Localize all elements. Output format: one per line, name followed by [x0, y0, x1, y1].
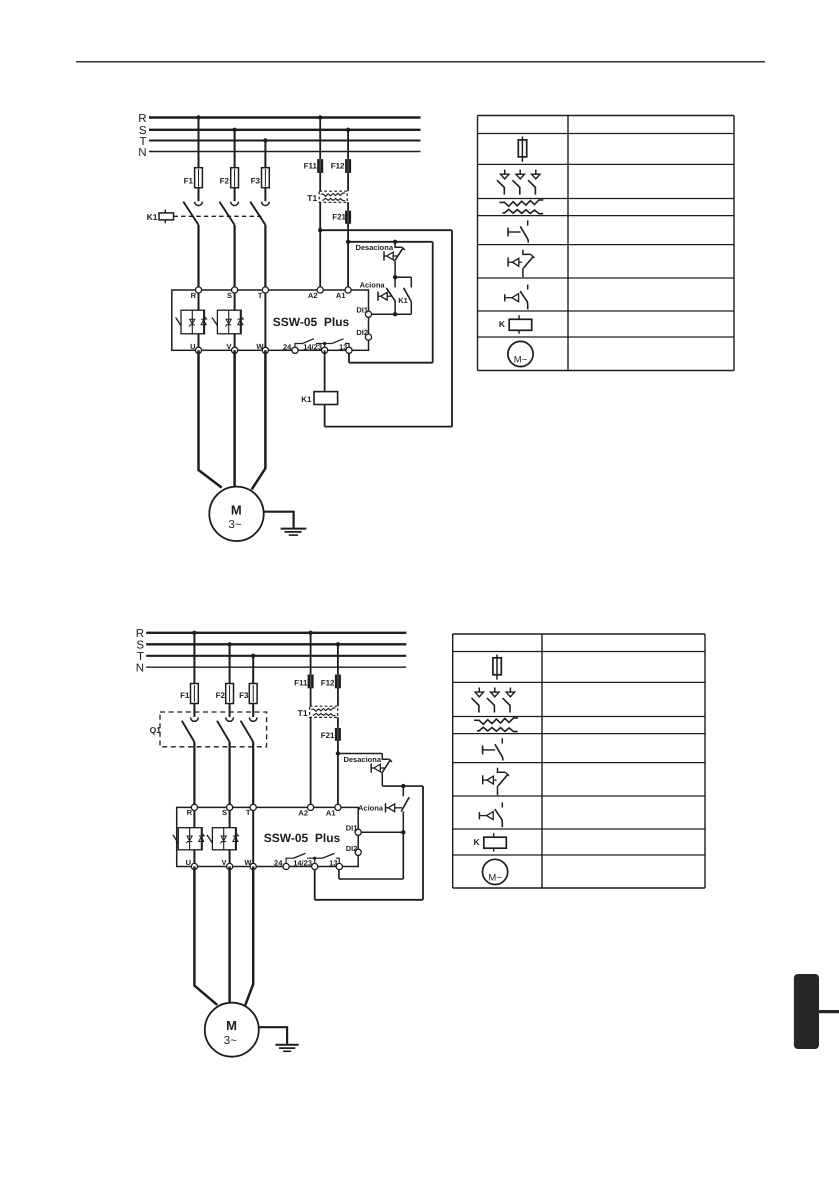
wire S bus to fuse F2 [234, 130, 236, 168]
wire DI1 node to 13 loop (d2) [402, 832, 404, 879]
mechanical link K1 (dashed) [174, 215, 262, 217]
wire fuse F1 to Q1 (d2) [193, 704, 195, 717]
contactor K1 drive symbol [147, 210, 174, 224]
node R (diagram 1 phase bus R) [138, 113, 420, 125]
svg-text:3~: 3~ [228, 519, 241, 531]
node N (diagram 2 neutral bus N) [136, 663, 407, 675]
svg-text:A2: A2 [308, 291, 318, 300]
wire U to motor [199, 350, 222, 487]
svg-text:F2: F2 [220, 177, 230, 186]
soft-starter label (d2) [264, 831, 341, 845]
wire T1 to terminal A2 [319, 202, 321, 290]
junction on bus T at F3 (d2) [251, 654, 255, 658]
svg-text:V: V [226, 342, 231, 351]
wire outer loop bottom [325, 426, 452, 428]
wire T1 to fuse F21 [347, 202, 349, 211]
terminal 14/23 (d2) [293, 859, 318, 870]
terminal A1 [336, 287, 351, 300]
svg-text:M: M [226, 1018, 237, 1033]
svg-text:K1: K1 [147, 212, 158, 222]
junction DI1 node [393, 312, 397, 316]
svg-text:F12: F12 [331, 161, 345, 170]
wire inner loop to terminal 13 [348, 350, 350, 362]
svg-text:Aciona: Aciona [358, 804, 384, 813]
wire fuse F21 to terminal A1 (d2) [337, 740, 339, 807]
svg-text:13: 13 [329, 859, 337, 868]
terminal V (d2) [221, 858, 232, 869]
fuse F21 (d2) [321, 728, 341, 742]
breaker Q1 pole 1 fixed [191, 717, 199, 721]
svg-text:R: R [136, 628, 144, 640]
push-button Desaciona contact [394, 242, 404, 277]
legend symbol: fuse (diagram 1) [518, 137, 526, 162]
terminal DI2 (d2) [346, 844, 362, 856]
svg-text:M~: M~ [514, 355, 528, 366]
contactor K1 contact pole 1 blade [183, 202, 198, 225]
fuse F12 (d2) [321, 674, 341, 689]
svg-text:K: K [499, 319, 506, 329]
svg-text:14/23: 14/23 [303, 342, 322, 351]
wire fuse F3 to contact [264, 188, 266, 202]
relay contact 24-14/23 internal [295, 339, 325, 351]
motor M1 (3-phase) [209, 487, 263, 541]
svg-text:T: T [246, 808, 251, 817]
svg-text:M~: M~ [488, 873, 502, 884]
push-button Desaciona actuator [384, 251, 397, 260]
breaker Q1 pole 3 fixed [249, 717, 257, 721]
fuse F1 [184, 168, 203, 188]
wire T bus to fuse F3 [264, 141, 266, 168]
fuse F12 [331, 159, 351, 174]
svg-text:T: T [137, 651, 144, 663]
terminal R [191, 287, 202, 300]
legend table (diagram 2) [453, 634, 705, 888]
junction Aciona tap (d2) [401, 784, 405, 788]
fuse F2 [220, 168, 239, 188]
svg-text:F2: F2 [216, 691, 226, 700]
wire DI1 node to terminal DI1 (d2) [361, 831, 403, 833]
wire terminal 14/23 to coil K1 [324, 350, 326, 391]
wire motor to ground (d2) [259, 1027, 287, 1044]
wire U to motor (d2) [194, 867, 217, 1005]
terminal W (d2) [244, 858, 256, 869]
legend symbol: NO push-button (diagram 1) [505, 285, 528, 310]
relay contact 14/23-13 internal (d2) [315, 853, 340, 866]
node S (diagram 1 phase bus S) [139, 125, 421, 137]
svg-text:N: N [138, 147, 146, 159]
junction on bus R at F11 (d2) [308, 631, 312, 635]
wire 13 loop bottom (d2) [339, 878, 403, 880]
wire motor to ground [264, 512, 294, 528]
ground (d2) [275, 1045, 298, 1052]
wire R terminal into block (d2) [193, 807, 195, 866]
wire S terminal into block (d2) [229, 807, 231, 866]
wire fuse F12 to T1 (d2) [337, 688, 339, 707]
page header rule [76, 61, 765, 63]
wire A1 node to control [348, 241, 433, 243]
junction node A1 branch (d2) [336, 751, 340, 755]
junction Desaciona output node [393, 275, 397, 279]
push-button Aciona label [360, 280, 386, 289]
fuse F1 (d2) [180, 684, 198, 704]
push-button Aciona actuator [378, 292, 391, 301]
terminal A2 [308, 287, 323, 300]
junction on bus R at F11 [318, 115, 322, 119]
svg-text:3~: 3~ [224, 1035, 237, 1047]
legend symbol: contactor coil K (diagram 1) [499, 315, 532, 334]
junction DI1 node (d2) [401, 830, 405, 834]
op-amp U1 soft-starter SSW-05 Plus outline [172, 290, 369, 350]
wire 13 loop to terminal 13 (d2) [338, 867, 340, 880]
node S (diagram 2 phase bus S) [136, 640, 406, 652]
page edge marker tab [794, 974, 839, 1049]
legend symbol: NC push-button (diagram 2) [483, 768, 509, 795]
junction on bus R at F1 (d2) [192, 631, 196, 635]
breaker Q1 dashed outline [150, 712, 267, 747]
svg-text:S: S [222, 808, 227, 817]
push-button Aciona contact [386, 277, 395, 314]
svg-text:T: T [258, 291, 263, 300]
terminal 13 [339, 342, 352, 353]
push-button Desaciona contact (d2) [382, 754, 392, 787]
wire fuse F12 to T1 [347, 172, 349, 191]
wire K1 pole 1 to terminal R [197, 225, 199, 290]
breaker Q1 pole 3 blade [241, 721, 254, 742]
contact K1 auxiliary [398, 277, 411, 314]
legend symbol: NO contact (diagram 1) [508, 220, 528, 242]
legend symbol: 3-pole contactor (diagram 1) [497, 170, 540, 195]
wire fuse F21 to terminal A1 [347, 223, 349, 290]
fuse F3 [251, 168, 270, 188]
svg-text:W: W [244, 858, 252, 867]
legend symbol: motor (diagram 1) [508, 341, 533, 366]
terminal R (d2) [187, 804, 198, 817]
svg-text:Q1: Q1 [150, 725, 162, 735]
terminal DI2 [356, 328, 371, 340]
svg-text:Desaciona: Desaciona [343, 755, 381, 764]
transformer T1 (d2) [298, 706, 338, 718]
svg-text:K: K [473, 837, 480, 847]
svg-text:F11: F11 [304, 161, 318, 170]
terminal DI1 [356, 306, 371, 318]
svg-text:N: N [136, 663, 144, 675]
push-button Aciona contact (d2) [401, 786, 409, 832]
transformer T1 [307, 191, 347, 203]
node R (diagram 2 phase bus R) [136, 628, 407, 640]
wire A2 node to outer loop [320, 229, 452, 231]
svg-text:F1: F1 [180, 691, 190, 700]
svg-text:U: U [186, 858, 191, 867]
svg-text:K1: K1 [301, 395, 312, 404]
wire to K1 aux branch [395, 276, 411, 278]
svg-text:DI2: DI2 [356, 328, 368, 337]
wire Q1 pole 3 to terminal T (d2) [252, 742, 254, 808]
svg-text:U: U [190, 342, 195, 351]
junction node A1 branch [346, 240, 350, 244]
svg-text:24: 24 [283, 342, 292, 351]
svg-text:DI2: DI2 [346, 844, 358, 853]
wire inner loop right side [432, 242, 434, 363]
wire right loop bottom (d2) [315, 899, 423, 901]
svg-text:F21: F21 [321, 731, 335, 740]
terminal 24 (d2) [274, 859, 289, 870]
wire fuse F3 to Q1 (d2) [252, 704, 254, 717]
wire right loop to terminal 14/23 (d2) [314, 867, 316, 900]
svg-text:SSW-05 Plus: SSW-05 Plus [273, 315, 350, 329]
svg-text:K1: K1 [398, 296, 408, 305]
wire Desaciona output (d2) [382, 785, 423, 787]
push-button Aciona actuator (d2) [386, 803, 403, 812]
svg-text:F3: F3 [251, 177, 261, 186]
wire outer loop right side [451, 230, 453, 426]
wire Q1 pole 2 to terminal S (d2) [229, 742, 231, 808]
svg-text:Aciona: Aciona [360, 280, 386, 289]
svg-text:A1: A1 [336, 291, 346, 300]
push-button Aciona label (d2) [358, 804, 384, 813]
breaker Q1 pole 1 blade [182, 721, 195, 742]
svg-text:R: R [187, 808, 193, 817]
wire inner loop bottom [349, 362, 433, 364]
legend symbol: transformer (diagram 1) [500, 200, 544, 214]
svg-text:F11: F11 [294, 678, 308, 687]
legend symbol: 3-pole contactor (diagram 2) [472, 688, 515, 713]
fuse F11 [304, 159, 323, 174]
coil K1 [301, 392, 337, 405]
push-button Desaciona label (d2) [343, 755, 381, 764]
junction on bus T at F3 [263, 138, 267, 142]
svg-text:24: 24 [274, 859, 283, 868]
fuse F3 (d2) [239, 684, 257, 704]
svg-text:T1: T1 [307, 193, 317, 203]
node T (diagram 1 phase bus T) [139, 136, 420, 148]
svg-text:S: S [136, 640, 144, 652]
junction on bus S at F12 [346, 128, 350, 132]
svg-text:14/23: 14/23 [293, 859, 312, 868]
contactor K1 contact pole 2 blade [219, 202, 234, 225]
svg-text:S: S [227, 291, 232, 300]
wire outer loop to coil K1 [324, 405, 326, 427]
svg-text:F3: F3 [239, 691, 249, 700]
svg-text:F12: F12 [321, 678, 335, 687]
svg-text:DI1: DI1 [346, 824, 358, 833]
wire W to motor (d2) [245, 867, 253, 1007]
wire K1 aux to DI1 node [395, 313, 411, 315]
wire fuse F1 to contact [198, 188, 200, 202]
contactor K1 contact pole 3 fixed [262, 202, 270, 206]
push-button Desaciona label [355, 243, 393, 252]
fuse F11 (d2) [294, 674, 313, 689]
junction on bus S at F2 (d2) [227, 642, 231, 646]
relay contact 14/23-13 internal [323, 339, 349, 351]
legend symbol: NC push-button (diagram 1) [508, 250, 534, 277]
wire Q1 pole 1 to terminal R (d2) [193, 742, 195, 808]
svg-text:M: M [231, 502, 242, 517]
svg-text:F21: F21 [332, 212, 346, 221]
push-button Desaciona actuator (d2) [371, 763, 384, 772]
legend symbol: NO contact (diagram 2) [483, 738, 503, 760]
wire R terminal into block [198, 290, 200, 350]
svg-text:DI1: DI1 [356, 306, 368, 315]
breaker Q1 pole 2 fixed [226, 717, 234, 721]
thyristor block phase R [176, 310, 208, 334]
svg-text:R: R [191, 291, 197, 300]
thyristor block phase R (d2) [173, 828, 205, 850]
wire R bus to fuse F1 [198, 118, 200, 168]
terminal 14/23 [303, 342, 327, 353]
terminal U (d2) [186, 858, 198, 869]
wire fuse F11 to T1 [319, 172, 321, 191]
svg-text:13: 13 [339, 342, 347, 351]
svg-text:T1: T1 [298, 708, 308, 718]
svg-text:A1: A1 [326, 809, 336, 818]
wire R bus to fuse F11 [319, 118, 321, 160]
wire fuse F2 to Q1 (d2) [229, 704, 231, 717]
wire DI1 node to terminal DI1 [372, 313, 396, 315]
terminal A2 (d2) [298, 804, 313, 817]
terminal 13 (d2) [329, 859, 342, 870]
wire R bus to fuse F1 (d2) [193, 633, 195, 684]
motor M1 (3-phase) (d2) [205, 1003, 259, 1057]
wire fuse F11 to T1 (d2) [310, 688, 312, 707]
svg-text:V: V [221, 858, 226, 867]
wire terminal T to W inside box [264, 290, 266, 350]
terminal S [227, 287, 238, 300]
svg-text:A2: A2 [298, 809, 308, 818]
relay contact 24-14/23 internal (d2) [286, 853, 316, 866]
wire T1 to fuse F21 (d2) [337, 717, 339, 728]
wire S bus to fuse F12 [347, 130, 349, 160]
fuse F2 (d2) [216, 684, 234, 704]
legend symbol: transformer (diagram 2) [474, 718, 518, 732]
svg-text:F1: F1 [184, 177, 194, 186]
legend table (diagram 1) [478, 116, 735, 371]
terminal V [226, 342, 237, 353]
svg-text:R: R [138, 113, 146, 125]
wire R bus to fuse F11 (d2) [310, 633, 312, 675]
wire K1 pole 2 to terminal S [234, 225, 236, 290]
wire W to motor [252, 350, 266, 489]
svg-text:W: W [256, 342, 264, 351]
svg-text:SSW-05 Plus: SSW-05 Plus [264, 831, 341, 845]
terminal U [190, 342, 202, 353]
node N (diagram 1 neutral bus N) [138, 147, 420, 159]
wire A1 node to Desaciona (d2) [338, 753, 382, 755]
terminal T (d2) [246, 804, 256, 817]
legend symbol: contactor coil K (diagram 2) [473, 833, 506, 852]
terminal DI1 (d2) [346, 824, 362, 836]
contactor K1 contact pole 2 fixed [231, 202, 239, 206]
wire T bus to fuse F3 (d2) [252, 656, 254, 684]
contactor K1 contact pole 1 fixed [195, 202, 203, 206]
wire V to motor (d2) [228, 867, 231, 1003]
wire terminal T to W inside box (d2) [252, 807, 254, 866]
fuse F21 [332, 210, 350, 224]
terminal 24 [283, 342, 298, 353]
junction at Desaciona tap [393, 240, 397, 244]
thyristor block phase S [212, 310, 244, 334]
junction node A2 branch [318, 228, 322, 232]
node T (diagram 2 phase bus T) [137, 651, 406, 663]
junction on bus S at F2 [232, 128, 236, 132]
wire S terminal into block [234, 290, 236, 350]
junction on bus R at F1 [196, 115, 200, 119]
ground [281, 529, 307, 536]
wire S bus to fuse F2 (d2) [229, 644, 231, 683]
wire S bus to fuse F12 (d2) [337, 644, 339, 675]
legend symbol: fuse (diagram 2) [493, 655, 501, 680]
terminal S (d2) [222, 804, 233, 817]
wire K1 pole 3 to terminal T [264, 225, 266, 290]
contactor K1 contact pole 3 blade [250, 202, 265, 225]
wire fuse F2 to contact [234, 188, 236, 202]
svg-text:Desaciona: Desaciona [355, 243, 393, 252]
terminal T [258, 287, 269, 300]
junction on bus S at F12 (d2) [336, 642, 340, 646]
thyristor block phase S (d2) [207, 828, 239, 850]
legend symbol: motor (diagram 2) [483, 859, 508, 884]
legend symbol: NO push-button (diagram 2) [479, 803, 502, 828]
wire right loop down (d2) [422, 786, 424, 900]
wire V to motor [233, 350, 236, 486]
wire T1 to terminal A2 (d2) [310, 717, 312, 807]
terminal A1 (d2) [326, 804, 341, 817]
breaker Q1 pole 2 blade [217, 721, 230, 742]
soft-starter label [273, 315, 350, 329]
soft-starter SSW-05 Plus outline (d2) [177, 807, 359, 866]
terminal W [256, 342, 268, 353]
